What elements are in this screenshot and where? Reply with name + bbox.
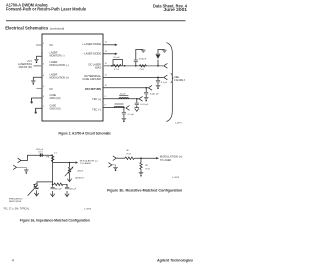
inductor L3 (114, 104, 124, 108)
svg-text:ADJUST: ADJUST (75, 176, 84, 179)
pin 9 wire (TEC+) (103, 98, 136, 100)
svg-text:7: 7 (43, 106, 44, 108)
pin 13 wire with arrow (103, 53, 118, 55)
svg-text:Forward-Path or Return-Path La: Forward-Path or Return-Path Laser Module (6, 7, 87, 12)
ground at C6 (50, 191, 54, 197)
resistor R4 (53, 183, 67, 187)
input connector chevron 2 (108, 163, 111, 168)
pin 4 wire (left) (33, 77, 42, 80)
svg-text:NC: NC (50, 88, 54, 91)
svg-text:250 Ω: 250 Ω (77, 169, 83, 172)
pin 5 wire (left) (36, 88, 42, 90)
pin 7 wire (left) (36, 108, 42, 111)
resistor R1 (in bias line) (113, 65, 121, 68)
svg-text:R2: R2 (145, 165, 149, 167)
svg-text:4.7 Ω: 4.7 Ω (114, 68, 120, 71)
svg-text:SEE: SEE (174, 77, 179, 79)
main vertical net (52, 155, 54, 184)
node at R6 (140, 157, 142, 159)
node at L1/R1 right (124, 65, 126, 67)
svg-text:36: 36 (126, 150, 129, 152)
pin 6 wire (left) (32, 98, 42, 101)
svg-text:RESPONSE: RESPONSE (9, 201, 22, 203)
ground at VR1 (67, 174, 71, 182)
svg-text:10 µH: 10 µH (120, 93, 126, 95)
output label (2 lines) (160, 156, 183, 162)
output wire (134, 157, 156, 159)
svg-text:FIGURE 3: FIGURE 3 (174, 80, 185, 82)
node at bottom of main net (52, 183, 54, 185)
pin 11 wire (RF/termination) (103, 76, 164, 78)
svg-text:820 µF: 820 µF (55, 189, 63, 191)
node at L1/R1 left (111, 65, 113, 67)
pin 8 wire (TEC-) (103, 107, 124, 109)
node at C1 (135, 65, 137, 67)
case ground at pin 6 (30, 98, 32, 103)
connector chevron, bias net (164, 63, 168, 68)
shield wire to ground (17, 167, 27, 169)
ground at pin 4 (31, 81, 36, 85)
input connector chevron 1 (113, 156, 116, 161)
svg-text:12: 12 (105, 63, 107, 65)
input ground (113, 167, 118, 171)
resistor R5 (series) (125, 157, 134, 160)
connector chevron pin 9 (139, 96, 143, 101)
capacitor C3 (135, 99, 139, 108)
connector chevron pin 10 (148, 85, 152, 90)
U1 inside labels, left column (50, 44, 70, 111)
ground at VR2 (34, 190, 38, 196)
ground at R6 (139, 172, 144, 176)
capacitor C2 (156, 77, 160, 85)
resistor R3 (vertical, series) (51, 155, 54, 162)
svg-text:MODULATION (+): MODULATION (+) (50, 76, 70, 79)
pin 1 wire (left, NC) (36, 44, 42, 46)
node at C4 (123, 107, 125, 109)
svg-text:1 k: 1 k (54, 153, 58, 155)
input connector chevron 1 (18, 158, 21, 163)
case ground at pin 7 (35, 108, 37, 113)
ground at C3 (arrow style) (135, 108, 140, 112)
svg-text:− LASER DIODE: − LASER DIODE (82, 53, 101, 56)
svg-text:75 Ω: 75 Ω (139, 68, 144, 71)
input ground (24, 170, 29, 174)
capacitor C7 (65, 184, 69, 189)
resistor R2 (in bias line) (139, 65, 146, 67)
svg-text:16 V: 16 V (38, 151, 43, 153)
svg-text:Agilent Technologies: Agilent Technologies (156, 258, 193, 262)
potentiometer VR2 (28, 184, 39, 196)
modulation tap wire (53, 162, 76, 164)
ground at C1 (141, 50, 146, 53)
svg-text:0.68 µF: 0.68 µF (139, 59, 147, 61)
svg-text:June 2001: June 2001 (164, 7, 188, 12)
svg-text:6: 6 (43, 96, 44, 98)
svg-text:GND (AU): GND (AU) (50, 97, 61, 100)
svg-text:11: 11 (105, 75, 107, 77)
svg-text:Electrical Schematics: Electrical Schematics (5, 25, 49, 30)
diode D1 (clamp to ground) (156, 50, 165, 66)
ground at C8 (144, 97, 149, 101)
arrow to laser (75, 161, 78, 163)
pin 14 wire with arrow (right top) (103, 44, 118, 46)
laser module U1 body (42, 34, 103, 121)
R5 value label (2 lines) (126, 150, 131, 155)
svg-text:(continued): (continued) (50, 26, 64, 30)
R6 value label (2 lines) (145, 165, 150, 170)
input connector chevron 2 (13, 165, 16, 170)
pin 2 wire (left, laser monitor) (37, 56, 43, 59)
svg-text:13: 13 (105, 51, 107, 53)
svg-text:Figure 3b. Resistive-Matched C: Figure 3b. Resistive-Matched Configurati… (107, 189, 182, 193)
node at C2 (157, 77, 159, 79)
bias branch wire (33, 182, 52, 185)
svg-text:10 µH: 10 µH (113, 57, 119, 59)
svg-text:1: 1 (43, 43, 44, 45)
capacitor C8 (144, 88, 148, 97)
svg-text:0.01 µF: 0.01 µF (141, 104, 149, 106)
svg-text:FB: FB (46, 157, 49, 159)
svg-text:8: 8 (105, 105, 106, 107)
inductor L1 (loop above R1) (113, 60, 123, 66)
header rule (6, 19, 186, 22)
svg-text:TEC (+): TEC (+) (92, 98, 101, 101)
svg-text:820 µF: 820 µF (69, 189, 77, 191)
svg-text:CASE GROUND: CASE GROUND (82, 78, 101, 81)
svg-text:MONITOR (−): MONITOR (−) (50, 54, 65, 57)
svg-text:4: 4 (43, 75, 44, 77)
svg-text:GND (AU): GND (AU) (50, 108, 61, 111)
capacitor C5 (on supply wire) (40, 153, 43, 156)
node at tap (69, 162, 71, 164)
wire node to chevron pin 9 (136, 98, 139, 100)
svg-text:TEC (−): TEC (−) (92, 108, 101, 111)
svg-text:TO LASER: TO LASER (160, 159, 172, 162)
connector chevron pin 8 (126, 106, 130, 111)
net label TEC control (3 lines) (18, 60, 32, 69)
arrow to laser (156, 157, 159, 159)
ground at D1 (162, 50, 167, 53)
svg-text:NC: NC (50, 44, 54, 47)
VR2 label (2 lines) (9, 198, 23, 203)
svg-text:3: 3 (43, 64, 44, 66)
connector group bracket (166, 43, 172, 122)
ground at C7 (65, 191, 69, 197)
svg-text:9: 9 (105, 96, 106, 98)
svg-text:1-0973: 1-0973 (84, 209, 92, 211)
capacitor C4 (122, 108, 126, 118)
shield wire to ground (112, 165, 116, 167)
ground at C4 (122, 118, 127, 122)
svg-text:5: 5 (43, 86, 44, 88)
brace to detail note (171, 74, 174, 83)
svg-text:2: 2 (41, 53, 42, 55)
node at C8 (145, 87, 147, 89)
connector chevron, RF net (164, 75, 168, 80)
svg-text:MODULATION (+): MODULATION (+) (160, 156, 183, 159)
svg-text:10: 10 (105, 85, 107, 87)
svg-text:0.1 µF: 0.1 µF (128, 114, 135, 116)
svg-text:1-0971: 1-0971 (175, 123, 183, 125)
svg-text:RF2 RETURN: RF2 RETURN (85, 88, 101, 91)
ground at C2 (156, 85, 161, 89)
brace note text (174, 77, 185, 82)
node at C3 (136, 98, 138, 100)
ground at pin 2 (34, 59, 39, 63)
inductor L2 (119, 95, 129, 99)
svg-text:75 Ω: 75 Ω (145, 167, 150, 170)
input wire (116, 157, 125, 159)
svg-text:BIAS: BIAS (95, 66, 101, 69)
pin 3 wire (left, dc bias, gray net) (34, 65, 43, 67)
tap label (2 lines) (80, 159, 98, 165)
node at D1 (157, 65, 159, 67)
svg-text:1-0974: 1-0974 (172, 177, 180, 179)
svg-text:Figure 2. A1700-A Circuit Sche: Figure 2. A1700-A Circuit Schematic (59, 131, 112, 135)
capacitor C6 (51, 184, 55, 189)
svg-text:MODULATION (−): MODULATION (−) (50, 64, 70, 67)
resistor R6 (shunt) (140, 158, 142, 172)
svg-text:Figure 3a. Impedance-Matched C: Figure 3a. Impedance-Matched Configurati… (20, 219, 90, 223)
svg-text:14: 14 (105, 41, 107, 43)
svg-text:4: 4 (12, 259, 14, 263)
svg-text:MODULATION (+): MODULATION (+) (80, 159, 98, 162)
capacitor C1 (134, 50, 144, 66)
supply wire (21, 155, 53, 160)
dc bias net (gray wire) (103, 65, 164, 67)
svg-text:AND RF (IN): AND RF (IN) (18, 66, 32, 69)
svg-text:* R1, 17 Ω, 5%, TYPICAL: * R1, 17 Ω, 5%, TYPICAL (3, 207, 30, 210)
svg-text:0.001 µF: 0.001 µF (150, 94, 159, 96)
svg-text:75 Ω: 75 Ω (126, 153, 131, 156)
potentiometer VR1 (65, 163, 74, 177)
pin 10 wire (103, 87, 148, 89)
C5 value label (2 lines) (36, 149, 44, 154)
U1 inside labels, right column (82, 43, 102, 111)
svg-text:+ LASER DIODE: + LASER DIODE (82, 43, 101, 46)
svg-text:0.1 µF: 0.1 µF (161, 82, 168, 84)
svg-text:TO LASER: TO LASER (80, 162, 91, 165)
svg-text:FREQUENCY: FREQUENCY (9, 198, 23, 200)
